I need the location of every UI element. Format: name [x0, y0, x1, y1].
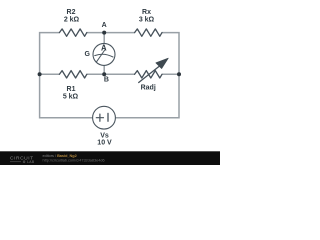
- wire: left loop (R2 lead, left vertical, bottom-left to Vs): [40, 33, 93, 118]
- galvanometer needle: [97, 49, 106, 61]
- svg-text:2 kΩ: 2 kΩ: [64, 16, 80, 23]
- junction dot left (middle wire): [38, 72, 42, 76]
- wire: middle horizontal center segment: [87, 73, 135, 75]
- voltage source minus bar: [107, 113, 109, 121]
- resistor R1: [59, 71, 86, 78]
- wire: right loop (Vs to bottom-right, right vertical, Rx lead): [115, 33, 179, 118]
- svg-text:3 kΩ: 3 kΩ: [139, 16, 155, 23]
- resistor Rx: [135, 29, 162, 36]
- potentiometer Radj zigzag: [135, 71, 162, 78]
- wire: galvanometer down to node B: [103, 65, 105, 74]
- svg-text:G: G: [84, 51, 90, 58]
- svg-text:R2: R2: [67, 9, 76, 16]
- svg-text:Vs: Vs: [100, 133, 109, 140]
- svg-text:A: A: [102, 22, 107, 29]
- svg-text:editors / Basid_Ng2: editors / Basid_Ng2: [43, 154, 77, 158]
- svg-text:B: B: [104, 77, 109, 84]
- potentiometer Radj arrow shaft: [139, 65, 161, 82]
- wire: middle horizontal right segment: [162, 73, 179, 75]
- wire: top-middle segment (R2 to Rx): [87, 32, 135, 34]
- wire: middle horizontal left segment: [40, 73, 60, 75]
- svg-text:10 V: 10 V: [97, 140, 112, 147]
- footer watermark bar: [0, 151, 220, 165]
- galvanometer G circle: [93, 43, 115, 65]
- junction dot right (middle wire): [177, 72, 181, 76]
- svg-text:⚙ LAB: ⚙ LAB: [23, 160, 35, 164]
- voltage source Vs circle: [93, 106, 116, 129]
- voltage source plus sign: [96, 114, 103, 121]
- svg-text:5 kΩ: 5 kΩ: [63, 93, 79, 100]
- resistor R2: [59, 29, 86, 36]
- node B junction dot: [102, 72, 106, 76]
- svg-text:R1: R1: [67, 86, 76, 93]
- galvanometer meter scale arc: [95, 54, 113, 57]
- svg-text:A: A: [101, 43, 107, 52]
- node A junction dot: [102, 31, 106, 35]
- potentiometer Radj arrow head: [156, 58, 168, 68]
- wire: node A down to galvanometer: [103, 33, 105, 44]
- svg-text:http://circuitlab.com/c/4732da: http://circuitlab.com/c/4732da83e4d6: [43, 159, 105, 163]
- svg-text:Rx: Rx: [142, 9, 151, 16]
- CircuitLab logo lines: [10, 161, 21, 163]
- svg-text:Radj: Radj: [141, 85, 156, 92]
